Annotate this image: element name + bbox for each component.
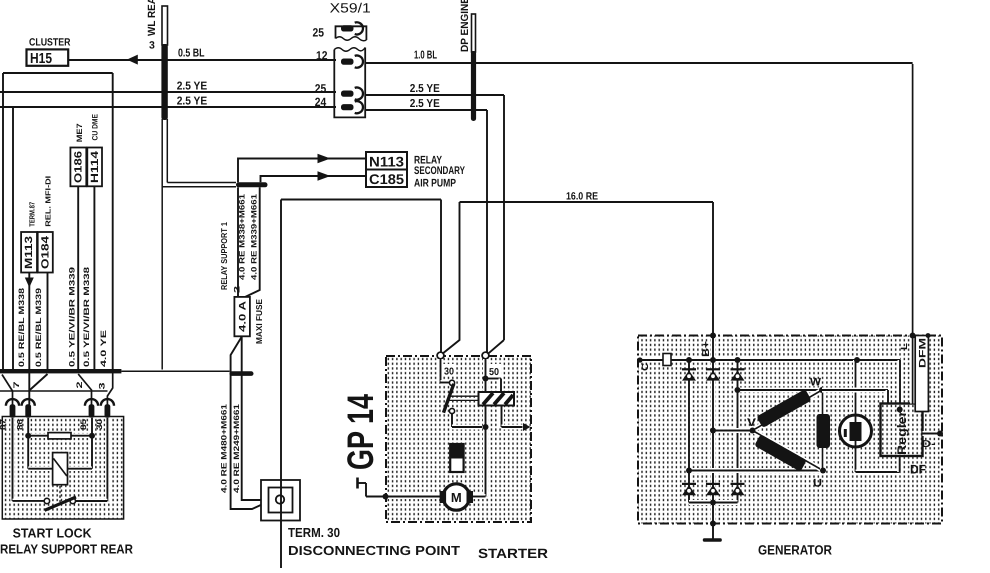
svg-text:B+: B+ (701, 341, 712, 357)
svg-text:7: 7 (12, 381, 21, 389)
svg-text:W: W (810, 376, 822, 388)
svg-text:O184: O184 (40, 236, 52, 269)
svg-text:AIR PUMP: AIR PUMP (414, 178, 456, 190)
svg-text:Regler: Regler (895, 411, 909, 455)
svg-text:2: 2 (75, 381, 84, 389)
svg-text:RELAY SUPPORT REAR: RELAY SUPPORT REAR (0, 542, 134, 557)
svg-text:H15: H15 (30, 51, 52, 67)
svg-text:DFM: DFM (918, 338, 929, 368)
svg-text:2.5 YE: 2.5 YE (177, 81, 208, 93)
svg-text:86: 86 (16, 418, 25, 430)
svg-text:30: 30 (444, 367, 454, 378)
svg-text:4.0 RE M249+M661: 4.0 RE M249+M661 (232, 403, 241, 493)
svg-text:O186: O186 (73, 151, 85, 183)
svg-text:25: 25 (315, 82, 327, 96)
svg-text:12: 12 (316, 48, 328, 62)
svg-text:0.5 YE/VI/BR M339: 0.5 YE/VI/BR M339 (68, 266, 77, 367)
svg-text:2.5 YE: 2.5 YE (177, 96, 208, 108)
svg-text:GP 14: GP 14 (340, 394, 381, 470)
svg-text:0.5 YE/VI/BR M338: 0.5 YE/VI/BR M338 (82, 266, 91, 367)
svg-text:H114: H114 (89, 151, 101, 183)
svg-text:STARTER: STARTER (478, 546, 548, 561)
svg-text:GENERATOR: GENERATOR (758, 543, 832, 558)
svg-text:C: C (640, 362, 650, 371)
svg-text:3: 3 (149, 40, 155, 52)
svg-text:MAXI FUSE: MAXI FUSE (254, 299, 264, 344)
svg-text:START LOCK: START LOCK (13, 526, 93, 541)
svg-text:DF: DF (910, 463, 926, 477)
svg-text:0.5 RE/BL M339: 0.5 RE/BL M339 (34, 287, 43, 367)
svg-text:2.5 YE: 2.5 YE (410, 83, 440, 95)
svg-text:X59/1: X59/1 (330, 0, 371, 15)
svg-text:CLUSTER: CLUSTER (29, 37, 71, 49)
svg-text:30: 30 (95, 418, 104, 430)
svg-text:85: 85 (79, 418, 88, 430)
svg-text:87: 87 (0, 418, 8, 430)
svg-text:4.0 RE M480+M661: 4.0 RE M480+M661 (220, 403, 229, 493)
svg-text:SECONDARY: SECONDARY (414, 165, 465, 177)
svg-text:4.0 YE: 4.0 YE (99, 330, 108, 367)
svg-text:D-: D- (922, 439, 936, 450)
svg-text:4.0 RE M338+M661: 4.0 RE M338+M661 (238, 193, 247, 280)
svg-text:25: 25 (313, 25, 325, 39)
svg-text:WL REAR: WL REAR (146, 0, 158, 36)
svg-text:RELAY SUPPORT 1: RELAY SUPPORT 1 (219, 222, 229, 290)
svg-text:REL. MFI-DI: REL. MFI-DI (44, 176, 53, 227)
svg-text:DP ENGINE: DP ENGINE (459, 0, 471, 52)
svg-text:3: 3 (98, 382, 107, 390)
svg-text:TERM. 30: TERM. 30 (288, 525, 340, 540)
svg-text:24: 24 (315, 95, 327, 109)
svg-text:TERM.87: TERM.87 (28, 202, 37, 227)
svg-text:16.0 RE: 16.0 RE (566, 191, 598, 203)
svg-text:L: L (899, 342, 909, 350)
svg-text:U: U (813, 478, 822, 490)
svg-text:ME7: ME7 (75, 123, 84, 142)
svg-text:V: V (747, 417, 757, 429)
svg-text:DISCONNECTING POINT: DISCONNECTING POINT (288, 543, 460, 558)
svg-text:0.5 RE/BL M338: 0.5 RE/BL M338 (17, 287, 26, 367)
svg-text:4.0 A: 4.0 A (238, 301, 249, 332)
svg-text:C185: C185 (369, 171, 404, 187)
svg-text:N113: N113 (369, 153, 404, 169)
svg-text:2.5 YE: 2.5 YE (410, 98, 440, 110)
svg-text:2: 2 (233, 285, 242, 293)
svg-text:4.0 RE M339+M661: 4.0 RE M339+M661 (250, 193, 259, 280)
svg-text:M: M (451, 490, 462, 505)
svg-text:CU DME: CU DME (91, 114, 100, 141)
svg-text:M113: M113 (23, 236, 35, 269)
svg-text:0.5 BL: 0.5 BL (178, 48, 205, 60)
svg-text:1.0 BL: 1.0 BL (414, 50, 437, 62)
